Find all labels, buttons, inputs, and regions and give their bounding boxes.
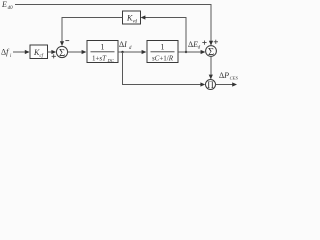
plus sign S1 left input <box>52 54 56 58</box>
plus sign S2 left input <box>202 41 206 45</box>
wire input to K_cf <box>13 51 29 53</box>
svg-text:ΔP: ΔP <box>219 71 229 80</box>
node E_d0 label <box>1 0 13 11</box>
wire Delta I_d branch to multiplier <box>123 52 205 85</box>
svg-text:ΔI: ΔI <box>119 40 127 49</box>
junction dot at E_d tap <box>185 51 187 53</box>
svg-text:d: d <box>198 46 201 51</box>
junction dot Delta I_d branch <box>121 51 123 53</box>
wire converter to capacitor block <box>118 51 146 53</box>
wire K_vd output to S1 <box>62 18 123 46</box>
arrowhead output <box>232 82 237 86</box>
svg-text:Π: Π <box>207 80 214 90</box>
plus sign S2 top input <box>214 40 218 44</box>
arrowhead into K_vd box <box>141 15 146 19</box>
arrowhead into K_cf box <box>25 50 30 54</box>
svg-text:i: i <box>10 54 12 59</box>
arrowhead into summer S1 top <box>60 41 64 46</box>
arrowhead into converter block <box>82 50 87 54</box>
svg-text:1: 1 <box>161 43 165 52</box>
wire K_cf to S1 <box>48 51 56 53</box>
wire E_d0 top rail <box>15 5 211 45</box>
gain block K_cf <box>30 45 48 59</box>
summing junction S2 <box>206 46 217 58</box>
svg-text:vd: vd <box>133 20 138 25</box>
summing junction S1 <box>56 46 67 59</box>
svg-text:ΔE: ΔE <box>188 40 198 49</box>
node Delta P_CES output label <box>219 71 238 81</box>
svg-text:E: E <box>1 0 7 9</box>
svg-text:d0: d0 <box>8 6 14 11</box>
svg-text:1: 1 <box>101 43 105 52</box>
svg-text:Δf: Δf <box>1 48 10 57</box>
arrowhead into S1 left <box>51 50 56 54</box>
node Delta E_d label <box>188 40 201 51</box>
arrowhead into multiplier top <box>209 75 213 80</box>
svg-text:sC+1/R: sC+1/R <box>152 55 174 63</box>
node Delta f_i input label <box>1 48 12 59</box>
svg-text:DC: DC <box>107 58 115 63</box>
wire S2 to multiplier <box>210 56 212 78</box>
wire capacitor block to S2 <box>178 51 205 53</box>
transfer block 1/(1+sT_DC) <box>87 41 118 64</box>
svg-text:Σ: Σ <box>59 48 65 59</box>
svg-text:Σ: Σ <box>208 47 214 58</box>
svg-text:1+sT: 1+sT <box>92 55 107 63</box>
transfer block 1/(sC+1/R) <box>147 41 178 63</box>
arrowhead into S2 left <box>201 50 206 54</box>
multiplier junction P1 <box>206 80 216 90</box>
wire multiplier output <box>216 84 236 86</box>
arrowhead into capacitor block <box>142 50 147 54</box>
node Delta I_d label <box>119 40 132 51</box>
arrowhead into summer S2 top <box>209 41 213 46</box>
wire K_vd feedback horizontal <box>142 18 187 53</box>
wire S1 to converter block <box>68 51 86 53</box>
gain block K_vd <box>123 11 141 25</box>
arrowhead into multiplier left <box>200 82 205 86</box>
svg-text:CES: CES <box>230 75 239 80</box>
svg-text:d: d <box>129 46 132 51</box>
minus sign S1 top input <box>65 40 69 42</box>
